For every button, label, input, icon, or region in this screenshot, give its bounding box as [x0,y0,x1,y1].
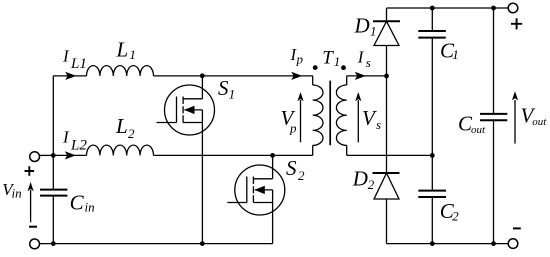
svg-text:T: T [322,48,334,69]
label C_in [70,191,95,215]
output terminal top (+) [508,3,518,13]
node S1 source [200,241,205,246]
diode D1 [373,8,400,173]
T1 polarity dot secondary [341,65,346,70]
node Cout bottom [491,241,496,246]
arrow V_in [30,190,32,222]
node bus-L2 [51,153,56,158]
arrow I_s [355,72,366,80]
wire bottom-left rail [39,243,272,245]
svg-text:2: 2 [128,126,135,141]
wire left bus upper [52,76,54,190]
input terminal top (+) [30,152,40,162]
arrow I_p [291,72,302,80]
svg-text:C: C [70,191,85,215]
wire L2 row right [154,154,313,156]
svg-text:in: in [85,199,95,214]
label V_in [2,180,21,201]
svg-text:2: 2 [368,177,375,192]
transformer T1 secondary [336,76,346,155]
label S_2 [286,156,305,183]
capacitor Cin [40,190,67,196]
label V_s [362,106,381,132]
wire L1 row left [53,75,86,77]
svg-text:L: L [115,114,128,138]
capacitor Cout [480,8,507,244]
node C2 bottom [430,241,435,246]
node C1-C2 midpoint [430,153,435,158]
svg-text:V: V [362,106,377,130]
wire L2 row left [53,154,86,156]
svg-text:S: S [286,156,297,180]
node Is-D column [384,74,389,79]
plus sign output [511,18,522,29]
svg-text:1: 1 [334,54,341,69]
capacitor C1 [418,8,446,155]
transistor S2 [227,155,284,243]
wire secondary bottom row [347,154,433,156]
svg-text:1: 1 [229,86,236,101]
label L_2 [115,114,135,141]
wire left bus lower [52,196,54,244]
svg-text:1: 1 [129,47,136,62]
input terminal bottom (-) [30,239,40,249]
label T_1 [322,48,340,70]
svg-text:p: p [296,52,304,67]
minus sign input [29,226,37,228]
inductor L2 [87,145,154,155]
wire top rail [387,7,509,9]
minus sign output [513,227,521,229]
node Cout top [491,6,496,11]
label D_2 [352,167,375,192]
transformer T1 primary [313,76,323,155]
label V_p [281,106,298,136]
capacitor C2 [418,155,446,243]
diode D2 [373,173,400,244]
inductor L1 [87,66,154,76]
svg-text:I: I [62,128,70,147]
arrow V_out [514,100,516,144]
T1 polarity dot primary [313,65,318,70]
arrow I_L1 [65,72,76,80]
svg-text:I: I [357,48,365,67]
svg-text:D: D [352,167,368,191]
svg-text:p: p [289,121,297,136]
svg-text:S: S [218,76,229,100]
node bus-bottom [51,241,56,246]
plus sign input [25,166,35,176]
node C1 top [430,6,435,11]
svg-text:L2: L2 [70,137,87,153]
label I_L2 [62,128,87,154]
label D_1 [354,13,377,38]
svg-text:out: out [471,124,486,136]
label V_out [521,103,548,128]
label I_s [357,48,371,71]
arrow V_p [300,100,302,142]
label C_1 [440,39,459,63]
label C_out [458,111,486,136]
transistor S1 [157,76,215,244]
wire L1 row right [154,75,313,77]
svg-text:1: 1 [370,23,377,38]
svg-text:s: s [376,117,381,132]
label L_1 [116,38,136,62]
output terminal bottom (-) [508,239,518,249]
svg-text:I: I [62,47,70,66]
node S2 drain [270,153,275,158]
wire bottom-right rail [387,243,509,245]
svg-text:2: 2 [298,168,305,183]
transformer T1 core [329,81,331,146]
svg-text:2: 2 [452,209,459,224]
node S1 drain [200,73,205,78]
svg-text:in: in [12,186,22,201]
arrow V_s [357,100,359,142]
wire input top to bus [39,154,53,156]
label C_2 [440,199,459,224]
arrow I_L2 [65,151,76,159]
label I_L1 [62,47,87,73]
svg-text:L1: L1 [70,56,87,72]
svg-text:L: L [116,38,129,62]
wire Is row [347,75,387,77]
svg-text:D: D [354,13,370,37]
svg-text:s: s [366,55,371,70]
svg-text:out: out [532,116,547,128]
label I_p [290,45,304,67]
label S_1 [218,76,235,101]
svg-text:1: 1 [452,47,459,62]
